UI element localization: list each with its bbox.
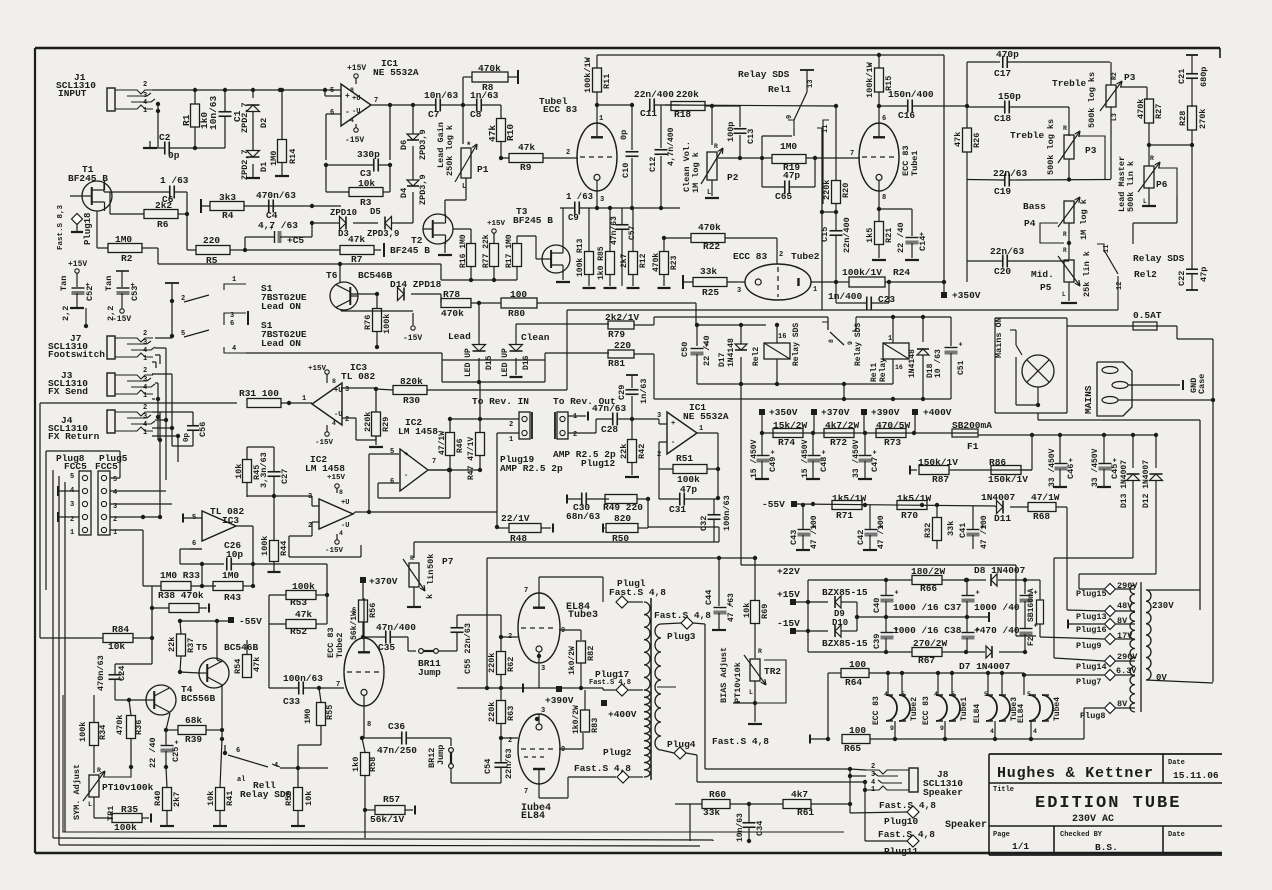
svg-text:L3: L3 bbox=[1111, 113, 1118, 121]
resistor R31 100 bbox=[239, 388, 312, 408]
svg-text:R67: R67 bbox=[918, 655, 935, 666]
svg-text:C27: C27 bbox=[280, 469, 290, 484]
plug Plug1 Fast.S 4,8 bbox=[609, 578, 666, 608]
svg-text:R52: R52 bbox=[290, 626, 307, 637]
svg-text:R26: R26 bbox=[972, 133, 982, 148]
plug Plug7 6.3V bbox=[1022, 666, 1138, 695]
resistor R25 33k bbox=[683, 266, 745, 298]
svg-text:C49: C49 bbox=[768, 457, 778, 472]
resistor R79 2k2/1W bbox=[605, 312, 828, 340]
svg-text:Fast.S 4,8: Fast.S 4,8 bbox=[879, 800, 936, 811]
svg-text:Relay SDS: Relay SDS bbox=[792, 323, 801, 366]
svg-text:R76: R76 bbox=[363, 315, 373, 330]
resistor R17 1M0 bbox=[441, 234, 522, 280]
svg-text:10k: 10k bbox=[206, 791, 216, 806]
svg-text:1k0/2W: 1k0/2W bbox=[572, 705, 581, 734]
svg-text:C46: C46 bbox=[1066, 464, 1076, 479]
svg-text:C56: C56 bbox=[198, 422, 208, 437]
resistor R84 10k bbox=[40, 624, 154, 664]
svg-text:220: 220 bbox=[203, 235, 220, 246]
resistor R40 2k7 bbox=[153, 767, 182, 826]
svg-text:R56: R56 bbox=[368, 603, 378, 618]
svg-text:33k: 33k bbox=[703, 807, 720, 818]
svg-text:6: 6 bbox=[330, 109, 334, 117]
fuse F2 SB160mA bbox=[1025, 580, 1044, 646]
svg-text:C43: C43 bbox=[789, 530, 799, 545]
svg-text:+U: +U bbox=[341, 499, 349, 507]
svg-text:P2: P2 bbox=[727, 172, 739, 183]
resistor R7 47k bbox=[245, 234, 384, 265]
svg-text:Fast.S 8,3: Fast.S 8,3 bbox=[57, 204, 65, 250]
svg-text:C23: C23 bbox=[878, 294, 895, 305]
svg-text:Tube4: Tube4 bbox=[1053, 697, 1062, 721]
svg-text:F1: F1 bbox=[967, 441, 979, 452]
transistor T3 BF245B jfet bbox=[513, 206, 570, 273]
svg-text:Treble: Treble bbox=[1052, 78, 1087, 89]
wire R31 input net bbox=[40, 403, 237, 638]
svg-text:R34: R34 bbox=[98, 725, 108, 740]
svg-text:C2: C2 bbox=[159, 132, 171, 143]
fuse 0.5AT bbox=[1067, 310, 1213, 360]
diode D7 1N4007 bbox=[959, 646, 1027, 672]
transformer mains primary taps bbox=[1130, 582, 1141, 712]
svg-text:+: + bbox=[671, 420, 675, 428]
svg-text:R2: R2 bbox=[1111, 72, 1118, 80]
resistor R9 47k bbox=[501, 142, 578, 173]
svg-text:BF245 B: BF245 B bbox=[390, 245, 430, 256]
svg-text:5: 5 bbox=[390, 448, 394, 456]
resistor R47 47/1W bbox=[429, 382, 485, 480]
svg-text:C8: C8 bbox=[470, 109, 482, 120]
relay switch Rel2 contact bbox=[822, 128, 951, 345]
svg-text:3: 3 bbox=[541, 707, 545, 715]
diode D11 1N4007 bbox=[981, 492, 1028, 524]
plug Plug11 Fast.S 4,8 bbox=[865, 829, 935, 857]
capacitor C37b 1000/40 bbox=[1020, 580, 1038, 628]
svg-text:22k: 22k bbox=[167, 637, 177, 652]
potentiometer P5 Mid 25k lin k bbox=[1031, 251, 1092, 303]
wire left edge risers 2 bbox=[0, 0, 1, 1]
svg-text:9: 9 bbox=[561, 746, 565, 754]
svg-text:C47: C47 bbox=[870, 457, 880, 472]
svg-text:R83: R83 bbox=[590, 718, 600, 733]
svg-text:Plug7: Plug7 bbox=[1076, 677, 1102, 687]
wire plate rail top bbox=[597, 53, 944, 57]
resistor R69 10k bbox=[742, 601, 770, 659]
transformer output primary bbox=[644, 598, 651, 780]
resistor R61 4k7 bbox=[749, 789, 852, 818]
connector Plug8 FCC5 bbox=[56, 453, 91, 537]
svg-text:LED UP: LED UP bbox=[501, 348, 510, 377]
resistor R63 220k bbox=[487, 688, 516, 740]
svg-text:Jump: Jump bbox=[436, 745, 446, 765]
svg-text:ECC 83: ECC 83 bbox=[872, 696, 881, 725]
svg-text:+: + bbox=[404, 451, 408, 459]
svg-text:-55V: -55V bbox=[762, 499, 785, 510]
svg-text:22 /40: 22 /40 bbox=[896, 222, 906, 253]
svg-text:+: + bbox=[269, 225, 273, 233]
svg-text:R62: R62 bbox=[506, 657, 516, 672]
wire left risers bbox=[53, 470, 65, 845]
svg-text:2: 2 bbox=[143, 367, 147, 375]
tube V2b ECC83 Tube2 bbox=[326, 598, 384, 729]
capacitor C29 1n/63 bbox=[617, 375, 649, 419]
capacitor C24 470n/63 bbox=[96, 655, 152, 700]
power terminal +350V bbox=[941, 282, 981, 301]
resistor R1 1k0 bbox=[181, 88, 210, 148]
tube V2a ECC83 Tube2 horizontal bbox=[733, 251, 820, 300]
svg-text:P5: P5 bbox=[1040, 282, 1052, 293]
svg-text:R37: R37 bbox=[186, 638, 196, 653]
svg-text:68k: 68k bbox=[185, 715, 202, 726]
svg-text:F2: F2 bbox=[1027, 636, 1036, 646]
svg-text:47 /100: 47 /100 bbox=[980, 515, 989, 549]
resistor R13 100k bbox=[576, 208, 596, 288]
svg-text:R21: R21 bbox=[884, 228, 894, 243]
capacitor C12 4,7n/400 bbox=[648, 105, 676, 181]
svg-text:Plug12: Plug12 bbox=[581, 458, 616, 469]
svg-text:D2: D2 bbox=[259, 118, 269, 128]
potentiometer TR1 PT10v100k SYM Adjust bbox=[72, 764, 154, 821]
capacitor C20 22n/63 bbox=[967, 179, 1069, 282]
resistor R28 270k bbox=[1149, 106, 1208, 147]
plug Plug13 48V bbox=[1067, 507, 1135, 622]
svg-text:10n/63: 10n/63 bbox=[424, 90, 459, 101]
svg-text:250k log k: 250k log k bbox=[445, 125, 455, 176]
wire IC1 inputs bbox=[278, 88, 341, 160]
capacitor C6 1/63 bbox=[104, 175, 189, 214]
svg-text:33 /450V: 33 /450V bbox=[1091, 448, 1100, 487]
capacitor C32 100n/63 bbox=[699, 495, 732, 542]
resistor R44 100k bbox=[260, 496, 289, 572]
svg-text:R59: R59 bbox=[284, 791, 294, 806]
svg-text:47k: 47k bbox=[953, 132, 963, 147]
svg-text:22n/400: 22n/400 bbox=[842, 217, 852, 253]
svg-text:R4: R4 bbox=[222, 210, 234, 221]
resistor R74 15k/2W bbox=[773, 420, 808, 448]
svg-text:R71: R71 bbox=[836, 510, 853, 521]
svg-text:4: 4 bbox=[232, 345, 236, 353]
wire tube1 plate node bbox=[597, 103, 634, 107]
svg-text:-15V: -15V bbox=[315, 439, 334, 447]
svg-text:9: 9 bbox=[561, 627, 565, 635]
capacitor C4 470n/63 bbox=[256, 190, 296, 221]
svg-text:9: 9 bbox=[940, 725, 944, 732]
capacitor C5 4,7/63 polarized bbox=[243, 220, 314, 252]
svg-text:-15V: -15V bbox=[325, 547, 344, 555]
svg-text:15 /450V: 15 /450V bbox=[750, 439, 759, 478]
tube V1b ECC83 Tube1 bbox=[859, 115, 920, 202]
svg-text:ECC 83: ECC 83 bbox=[922, 696, 931, 725]
capacitor C35 47n/400 bbox=[363, 622, 416, 653]
svg-text:R72: R72 bbox=[830, 437, 847, 448]
svg-text:1: 1 bbox=[573, 413, 577, 421]
svg-text:1: 1 bbox=[232, 276, 236, 284]
svg-text:R82: R82 bbox=[586, 646, 596, 661]
wire IC2a input net bbox=[247, 495, 312, 497]
svg-text:6: 6 bbox=[882, 115, 886, 123]
svg-text:5: 5 bbox=[330, 87, 334, 95]
power -15V IC1 bbox=[345, 124, 364, 145]
svg-text:5: 5 bbox=[1027, 691, 1031, 698]
svg-text:47/1W: 47/1W bbox=[1031, 492, 1060, 503]
capacitor C40 1000/16 bbox=[872, 580, 899, 617]
svg-text:R22: R22 bbox=[703, 241, 720, 252]
svg-text:22n/400: 22n/400 bbox=[634, 89, 674, 100]
capacitor C17 470p bbox=[967, 49, 1110, 106]
svg-text:220k: 220k bbox=[676, 89, 699, 100]
capacitor C53 2,2 Tan -15V bbox=[104, 271, 140, 324]
svg-text:Plug3: Plug3 bbox=[667, 631, 696, 642]
svg-text:1N4148: 1N4148 bbox=[727, 338, 736, 367]
svg-text:R: R bbox=[1063, 125, 1067, 132]
svg-text:Fast.S 4,8: Fast.S 4,8 bbox=[654, 610, 711, 621]
svg-text:+350V: +350V bbox=[952, 290, 981, 301]
resistor R26 47k bbox=[953, 107, 982, 179]
svg-text:Rel2: Rel2 bbox=[1134, 269, 1157, 280]
svg-text:1 /63: 1 /63 bbox=[160, 175, 189, 186]
svg-text:-U: -U bbox=[334, 411, 342, 419]
LED D16 Clean bbox=[501, 324, 550, 377]
svg-text:470k: 470k bbox=[698, 222, 721, 233]
zener diode D1 ZPD2,7 bbox=[240, 149, 269, 180]
wire EL84 tube4 connections bbox=[501, 717, 616, 798]
tube V1a ECC83 Tube1 bbox=[539, 96, 617, 204]
transformer mains secondary 230V bbox=[1146, 590, 1213, 683]
relay switch Rel1 bottom bbox=[223, 745, 328, 800]
resistor R66 180/2W bbox=[886, 566, 985, 594]
power terminal -15V bbox=[777, 618, 828, 634]
resistor R65 100 bbox=[842, 725, 1084, 754]
capacitor C14 22/40 bbox=[879, 209, 928, 260]
svg-text:R46: R46 bbox=[456, 438, 465, 453]
resistor R3 10k feedback bbox=[326, 165, 390, 208]
svg-text:LED UP: LED UP bbox=[464, 348, 473, 377]
svg-text:BZX85-15: BZX85-15 bbox=[822, 587, 868, 598]
svg-text:Plug18: Plug18 bbox=[83, 213, 93, 245]
svg-text:Tan: Tan bbox=[59, 276, 69, 291]
svg-text:C65: C65 bbox=[775, 191, 792, 202]
wire supply rail y435 right bbox=[978, 433, 1156, 437]
svg-text:R77 22k: R77 22k bbox=[482, 234, 491, 268]
svg-text:3,3n/63: 3,3n/63 bbox=[259, 452, 269, 488]
svg-text:4: 4 bbox=[1033, 728, 1037, 735]
svg-text:C13: C13 bbox=[746, 129, 756, 144]
svg-text:D8 1N4007: D8 1N4007 bbox=[974, 565, 1026, 576]
capacitor C54 22n/63 bbox=[451, 738, 514, 783]
LED D15 Lead bbox=[448, 303, 494, 384]
resistor R41 10k bbox=[206, 739, 235, 826]
title block bbox=[989, 754, 1222, 855]
svg-text:2,2: 2,2 bbox=[61, 306, 71, 321]
svg-text:TL 082: TL 082 bbox=[341, 371, 376, 382]
zener diode D10 BZX85-15 bbox=[822, 615, 888, 649]
svg-text:3: 3 bbox=[871, 771, 875, 779]
resistor R14 1M0 bbox=[269, 88, 298, 176]
resistor R62 220k bbox=[487, 635, 516, 690]
svg-text:68n/63: 68n/63 bbox=[566, 511, 601, 522]
resistor R29 220k bbox=[356, 387, 391, 447]
svg-text:+: + bbox=[175, 740, 179, 748]
svg-text:470k: 470k bbox=[115, 715, 125, 735]
svg-text:2k7: 2k7 bbox=[620, 253, 629, 268]
resistor R59 10k bbox=[284, 768, 314, 826]
svg-text:-U: -U bbox=[341, 522, 349, 530]
capacitor C7 10n/63 bbox=[424, 90, 465, 120]
svg-text:6: 6 bbox=[236, 747, 240, 755]
svg-text:330p: 330p bbox=[357, 149, 380, 160]
op-amp IC2a LM1458 bbox=[305, 454, 355, 555]
svg-text:C21: C21 bbox=[1177, 69, 1187, 84]
svg-text:4: 4 bbox=[332, 420, 336, 427]
svg-text:P3: P3 bbox=[1124, 72, 1136, 83]
svg-text:C22: C22 bbox=[1177, 271, 1187, 286]
diode D14 ZPD18 bbox=[375, 279, 442, 303]
resistor R81 220 bbox=[608, 340, 654, 399]
svg-text:ZPD3,9: ZPD3,9 bbox=[367, 229, 399, 239]
svg-text:Treble: Treble bbox=[1010, 130, 1045, 141]
resistor R8 470k bbox=[463, 63, 518, 105]
transistor T6 BC546B bbox=[326, 270, 393, 310]
svg-text:10k: 10k bbox=[234, 464, 244, 479]
svg-text:D17: D17 bbox=[718, 352, 727, 367]
svg-text:3: 3 bbox=[345, 386, 349, 394]
svg-text:R: R bbox=[1063, 231, 1067, 238]
svg-text:R47 47/1V: R47 47/1V bbox=[467, 437, 476, 480]
svg-text:Relay SDS: Relay SDS bbox=[1133, 253, 1185, 264]
svg-text:C14: C14 bbox=[918, 236, 928, 251]
svg-text:Hughes & Kettner: Hughes & Kettner bbox=[997, 765, 1154, 782]
svg-text:470k: 470k bbox=[441, 308, 464, 319]
svg-text:-: - bbox=[671, 439, 675, 447]
svg-text:C16: C16 bbox=[898, 110, 915, 121]
svg-text:500k lin k: 500k lin k bbox=[1126, 161, 1136, 212]
svg-text:8: 8 bbox=[367, 721, 371, 729]
svg-text:C45: C45 bbox=[1110, 464, 1120, 479]
svg-text:ECC 83: ECC 83 bbox=[543, 104, 578, 115]
svg-text:B.S.: B.S. bbox=[1095, 842, 1118, 853]
resistor R68 47/1W bbox=[1028, 492, 1067, 522]
wire T2 gate from P1 bbox=[445, 192, 466, 215]
svg-text:8: 8 bbox=[828, 339, 835, 343]
capacitor C44 47/63 bbox=[704, 558, 736, 630]
svg-text:P3: P3 bbox=[1085, 145, 1097, 156]
svg-text:Plug9: Plug9 bbox=[1076, 641, 1102, 651]
power +15V IC1 bbox=[347, 64, 366, 84]
svg-text:Rel1: Rel1 bbox=[768, 84, 791, 95]
svg-text:10n/63: 10n/63 bbox=[208, 95, 219, 130]
power +370V output bbox=[360, 576, 398, 600]
svg-text:BC556B: BC556B bbox=[181, 693, 216, 704]
svg-text:100k R13: 100k R13 bbox=[576, 238, 585, 277]
svg-text:Title: Title bbox=[993, 786, 1014, 794]
svg-text:12: 12 bbox=[1116, 282, 1124, 290]
wire +22V node bbox=[777, 566, 888, 652]
capacitor C19 22n/63 bbox=[967, 168, 1111, 197]
svg-text:0p: 0p bbox=[183, 432, 191, 442]
svg-text:ZPD2,7: ZPD2,7 bbox=[240, 102, 250, 133]
svg-text:2: 2 bbox=[779, 251, 783, 259]
svg-text:10p: 10p bbox=[226, 549, 243, 560]
wire heater bottom R65 bbox=[810, 735, 830, 744]
svg-text:1M0 R33: 1M0 R33 bbox=[160, 570, 200, 581]
svg-text:INPUT: INPUT bbox=[58, 88, 87, 99]
svg-text:470n/63: 470n/63 bbox=[256, 190, 296, 201]
svg-text:L: L bbox=[749, 689, 753, 696]
svg-text:EDITION TUBE: EDITION TUBE bbox=[1035, 794, 1181, 813]
svg-text:C35: C35 bbox=[378, 642, 395, 653]
svg-text:Lead: Lead bbox=[448, 331, 471, 342]
svg-text:2: 2 bbox=[566, 149, 570, 157]
power terminal +350V rail bbox=[759, 407, 798, 433]
lamp Mains ON bbox=[994, 317, 1067, 413]
diode D18 1N4148 bbox=[908, 315, 935, 399]
svg-text:+15V: +15V bbox=[327, 474, 346, 482]
svg-text:R41: R41 bbox=[225, 791, 235, 806]
svg-text:47k: 47k bbox=[518, 142, 535, 153]
resistor R50 820 bbox=[603, 499, 648, 544]
svg-text:-15V: -15V bbox=[403, 334, 422, 343]
svg-text:1: 1 bbox=[599, 115, 603, 123]
wire -55V bus bbox=[762, 499, 995, 510]
svg-text:R2: R2 bbox=[121, 253, 133, 264]
svg-text:R11: R11 bbox=[602, 74, 612, 89]
potentiometer P7 50k lin k bbox=[403, 554, 454, 607]
svg-text:220k: 220k bbox=[487, 702, 497, 722]
potentiometer P4 Bass 1M log k bbox=[1023, 197, 1089, 260]
resistor R15 100k/1W bbox=[865, 55, 894, 123]
svg-text:0p: 0p bbox=[168, 150, 180, 161]
svg-text:LM 1458: LM 1458 bbox=[305, 463, 345, 474]
svg-text:150k/1V: 150k/1V bbox=[988, 474, 1028, 485]
svg-text:Jump: Jump bbox=[418, 667, 441, 678]
svg-text:100p: 100p bbox=[726, 122, 736, 142]
wire T1 drain bbox=[103, 182, 105, 192]
svg-text:R74: R74 bbox=[778, 437, 795, 448]
svg-text:R14: R14 bbox=[288, 149, 298, 164]
wire relay supply y565 bbox=[741, 384, 1036, 636]
svg-text:R80: R80 bbox=[508, 308, 525, 319]
svg-text:48V: 48V bbox=[1117, 601, 1133, 611]
resistor R82 1k0/2W bbox=[568, 641, 596, 690]
svg-text:D4: D4 bbox=[399, 188, 409, 198]
resistor R83 1k0/2W bbox=[572, 690, 600, 734]
svg-text:+: + bbox=[895, 590, 899, 598]
capacitor C37 1000/16 bbox=[893, 578, 1020, 617]
resistor R21 1k5 bbox=[865, 191, 894, 260]
svg-text:C18: C18 bbox=[994, 113, 1011, 124]
capacitor C33 100n/63 bbox=[269, 673, 344, 707]
relay Rel2 coil box bbox=[752, 323, 801, 384]
wire IC3b feedback bbox=[180, 526, 253, 566]
zener diode D9 BZX85-15 bbox=[822, 587, 868, 631]
svg-text:-: - bbox=[345, 108, 350, 117]
power terminal +400V rail bbox=[912, 407, 952, 433]
svg-text:C33: C33 bbox=[283, 696, 300, 707]
power terminal +370V rail bbox=[811, 407, 850, 433]
wire long feedback to output y542 bbox=[414, 527, 719, 558]
svg-text:Rel1: Rel1 bbox=[870, 363, 879, 382]
svg-text:C40: C40 bbox=[872, 598, 882, 613]
resistor R23 470k bbox=[652, 236, 679, 288]
svg-text:R16 1M0: R16 1M0 bbox=[459, 234, 468, 268]
resistor R33 1M0 bbox=[143, 570, 216, 591]
svg-text:R58: R58 bbox=[368, 757, 378, 772]
svg-text:4k7: 4k7 bbox=[791, 789, 808, 800]
svg-text:3: 3 bbox=[600, 196, 604, 204]
svg-text:Tube3: Tube3 bbox=[568, 609, 598, 621]
svg-text:D15: D15 bbox=[485, 355, 494, 370]
